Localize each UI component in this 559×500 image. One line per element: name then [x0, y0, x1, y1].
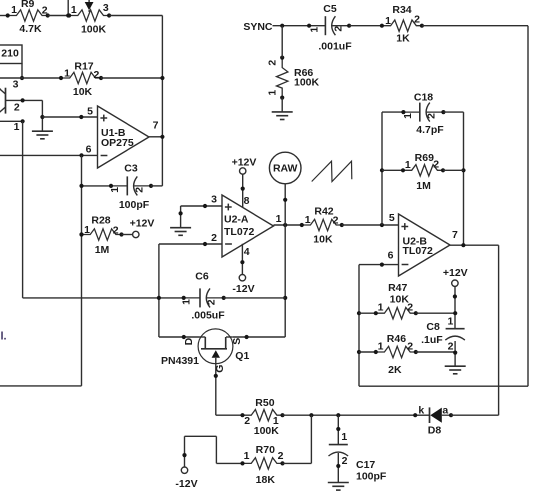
pin 4 U2-A — [240, 244, 249, 275]
svg-text:2: 2 — [244, 415, 250, 427]
wire — [215, 364, 217, 416]
wire — [159, 297, 184, 299]
pin 2 R34 — [414, 13, 420, 25]
wire — [215, 436, 217, 463]
svg-text:TL072: TL072 — [224, 226, 255, 238]
svg-text:R28: R28 — [91, 214, 110, 226]
node junction R47 — [453, 311, 457, 315]
resistor R17 — [59, 72, 103, 83]
node junction pin5 — [380, 223, 384, 227]
terminal +12V U2-A — [240, 168, 246, 174]
svg-text:1: 1 — [378, 340, 384, 352]
svg-text:100K: 100K — [294, 76, 320, 88]
node gnd pin dot — [179, 211, 183, 215]
wire — [22, 121, 24, 298]
value 4.7pF — [416, 124, 444, 136]
svg-text:1K: 1K — [396, 32, 410, 44]
label R28 — [91, 214, 110, 226]
svg-text:C17: C17 — [356, 459, 375, 471]
svg-text:6: 6 — [86, 143, 92, 155]
svg-text:1: 1 — [14, 121, 20, 133]
svg-text:210: 210 — [1, 48, 19, 60]
label R66 — [294, 67, 313, 79]
label R9 — [21, 0, 35, 10]
svg-text:2: 2 — [333, 214, 339, 226]
ground — [272, 112, 293, 120]
svg-text:R47: R47 — [388, 282, 407, 294]
node junction — [309, 413, 313, 417]
wire — [161, 16, 163, 186]
label TL072 — [224, 226, 255, 238]
pin 1 R69 — [405, 159, 411, 171]
svg-text:R46: R46 — [387, 333, 406, 345]
svg-text:100pF: 100pF — [356, 471, 387, 483]
wire — [159, 336, 199, 338]
svg-text:Q1: Q1 — [235, 350, 249, 362]
op-amp U2-A — [222, 195, 274, 257]
node S pin dot — [245, 335, 249, 339]
wire — [527, 26, 529, 387]
ground — [445, 366, 466, 374]
label C8 — [426, 321, 440, 333]
svg-text:2K: 2K — [388, 364, 402, 376]
label C5 — [323, 3, 337, 15]
svg-text:R34: R34 — [392, 4, 411, 16]
ground — [32, 131, 53, 139]
ground — [170, 228, 191, 236]
terminal +12V — [133, 231, 139, 237]
svg-text:18K: 18K — [256, 474, 276, 486]
label C3 — [124, 162, 138, 174]
svg-text:-12V: -12V — [175, 478, 197, 490]
pin 2 R69 — [433, 158, 439, 170]
svg-text:R42: R42 — [314, 206, 333, 218]
diode D8 — [413, 407, 453, 423]
pin 6 U1-B — [86, 143, 92, 155]
pin 1 R17 — [64, 67, 70, 79]
wire — [281, 98, 283, 112]
wire — [498, 245, 500, 415]
value .001uF — [318, 41, 352, 53]
wire — [0, 120, 23, 122]
resistor R70 — [240, 458, 284, 469]
node junction — [160, 135, 164, 139]
op-amp U1-B — [98, 106, 150, 168]
pin a — [442, 405, 448, 417]
svg-text:1: 1 — [402, 113, 414, 119]
pin 2 R70 — [278, 450, 284, 462]
value 100pF — [356, 471, 387, 483]
svg-text:2: 2 — [407, 301, 413, 313]
wire — [216, 414, 243, 416]
potentiometer 100K — [67, 10, 111, 21]
wire — [416, 351, 455, 353]
label C6 — [195, 270, 209, 282]
pin 3 U2-A — [211, 193, 217, 205]
pin 1 U2-A — [276, 213, 282, 225]
pin G — [214, 365, 226, 373]
node junction — [79, 153, 83, 157]
pin 7 U2-B — [452, 229, 458, 241]
svg-text:2: 2 — [342, 455, 348, 467]
terminal -12V — [181, 467, 187, 473]
svg-text:1: 1 — [181, 299, 193, 305]
wire — [0, 77, 61, 79]
svg-text:.1uF: .1uF — [421, 334, 443, 346]
svg-text:1: 1 — [244, 450, 250, 462]
wire — [6, 99, 43, 101]
resistor R28 — [79, 229, 123, 240]
terminal -12V U2-A — [239, 275, 245, 281]
pin 5 U1-B — [87, 105, 93, 117]
wire — [283, 414, 414, 416]
node -12V pin dot — [182, 453, 186, 457]
svg-text:1: 1 — [341, 431, 347, 443]
node junction C17 — [336, 413, 340, 417]
value 10K — [313, 234, 333, 246]
svg-text:2: 2 — [113, 224, 119, 236]
svg-text:TL072: TL072 — [403, 245, 434, 257]
pin 2 R46 — [407, 340, 413, 352]
wire — [273, 25, 310, 27]
svg-text:U2-A: U2-A — [224, 214, 249, 226]
pin 2 C3 — [133, 187, 145, 193]
wire — [101, 77, 162, 79]
svg-text:2: 2 — [133, 187, 145, 193]
label R46 — [387, 333, 406, 345]
svg-text:+12V: +12V — [232, 157, 257, 169]
svg-text:.005uF: .005uF — [191, 310, 225, 322]
svg-text:a: a — [442, 405, 448, 417]
svg-text:2: 2 — [278, 450, 284, 462]
wire — [443, 169, 464, 171]
svg-text:RAW: RAW — [273, 162, 298, 174]
value 100K — [294, 76, 320, 88]
svg-text:1M: 1M — [416, 180, 431, 192]
wire — [109, 15, 162, 17]
node junction top — [66, 13, 70, 17]
value 100K — [81, 23, 107, 35]
text fragment — [1, 331, 7, 343]
flag RAW — [269, 152, 301, 184]
wire — [451, 414, 499, 416]
label R42 — [314, 206, 333, 218]
value 1M — [416, 180, 431, 192]
node junction R46 — [453, 351, 457, 355]
svg-text:1: 1 — [305, 214, 311, 226]
terminal +12V U2-B — [452, 280, 458, 286]
node junction SYNC — [280, 24, 284, 28]
pin 1 C5 — [308, 27, 320, 33]
svg-text:1: 1 — [276, 213, 282, 225]
value 1K — [396, 32, 410, 44]
label D8 — [428, 425, 442, 437]
node junction — [160, 76, 164, 80]
pin 8 U2-A — [241, 174, 250, 207]
wire — [216, 462, 242, 464]
IC box 210 — [0, 45, 22, 64]
node junction — [380, 168, 384, 172]
capacitor C5 — [307, 16, 351, 35]
value 100K — [254, 425, 280, 437]
svg-text:1: 1 — [267, 90, 279, 96]
value 10K — [390, 294, 410, 306]
svg-text:1: 1 — [109, 187, 121, 193]
svg-text:C5: C5 — [323, 3, 337, 15]
wire — [23, 297, 159, 299]
svg-text:100K: 100K — [254, 425, 280, 437]
label +12V — [443, 267, 468, 279]
wire — [444, 111, 464, 113]
svg-text:3: 3 — [211, 193, 217, 205]
node junction — [157, 296, 161, 300]
svg-text:100K: 100K — [81, 23, 107, 35]
svg-text:2: 2 — [414, 13, 420, 25]
wire — [422, 25, 528, 27]
capacitor C17 — [329, 445, 349, 456]
label Q1 — [235, 350, 249, 362]
pin 1 C6 — [181, 299, 193, 305]
pin 1 R9 — [11, 4, 17, 16]
svg-text:1: 1 — [385, 15, 391, 27]
svg-text:D8: D8 — [428, 425, 442, 437]
wire — [284, 225, 286, 337]
node C17 pin dot — [336, 464, 340, 468]
node pin7 junction — [461, 243, 465, 247]
node D pin dot — [182, 335, 186, 339]
svg-text:1: 1 — [84, 224, 90, 236]
node pin3 dot — [203, 204, 207, 208]
wire — [180, 206, 182, 228]
wire — [337, 415, 339, 444]
svg-text:3: 3 — [103, 2, 109, 14]
pin 7 U1-B — [153, 119, 159, 131]
resistor R66 — [277, 56, 288, 100]
node junction — [40, 115, 44, 119]
resistor R69 — [401, 165, 445, 176]
svg-text:R17: R17 — [74, 60, 93, 72]
svg-text:4: 4 — [244, 246, 250, 258]
svg-text:S: S — [231, 338, 243, 345]
label C18 — [414, 92, 433, 104]
wire — [382, 111, 403, 113]
svg-text:+12V: +12V — [443, 267, 468, 279]
label R69 — [415, 152, 434, 164]
pin 3 box — [13, 78, 19, 90]
svg-text:R70: R70 — [256, 444, 275, 456]
svg-text:l.: l. — [1, 331, 7, 343]
svg-text:2: 2 — [267, 60, 279, 66]
pin 1 C3 — [109, 187, 121, 193]
label R17 — [74, 60, 93, 72]
node C17 pin dot — [336, 427, 340, 431]
wire — [342, 224, 399, 226]
svg-text:8: 8 — [244, 195, 250, 207]
pin 2 transistor — [14, 101, 20, 113]
wire — [67, 0, 69, 16]
capacitor C18 — [401, 103, 445, 122]
pin 1 C17 — [341, 431, 347, 443]
wire — [454, 341, 456, 366]
node junction — [20, 76, 24, 80]
pin 2 C17 — [342, 455, 348, 467]
wire — [233, 336, 285, 338]
svg-text:2: 2 — [407, 340, 413, 352]
resistor R50 — [240, 410, 284, 421]
pin 1 transistor — [14, 121, 20, 133]
node junction — [79, 184, 83, 188]
pin 2 C8 — [448, 341, 454, 353]
wire — [284, 184, 286, 225]
node U1-B pin5 dot — [79, 115, 83, 119]
svg-text:2: 2 — [206, 299, 218, 305]
svg-text:+12V: +12V — [130, 217, 155, 229]
resistor R34 — [380, 20, 424, 31]
pin 6 U2-B — [388, 250, 394, 262]
svg-text:.001uF: .001uF — [318, 41, 352, 53]
wire — [151, 185, 162, 187]
node junction — [79, 232, 83, 236]
pin 2 U2-A — [211, 232, 217, 244]
svg-text:C8: C8 — [426, 321, 440, 333]
label U2-B — [403, 235, 428, 247]
resistor R42 — [300, 219, 344, 230]
svg-text:SYNC: SYNC — [243, 21, 273, 33]
wire — [281, 26, 283, 58]
svg-text:C18: C18 — [414, 92, 433, 104]
pin 2 R42 — [333, 214, 339, 226]
label R47 — [388, 282, 407, 294]
pin 1 pot — [71, 4, 77, 16]
svg-text:1: 1 — [447, 316, 453, 328]
resistor R46 — [374, 346, 418, 357]
capacitor C3 — [109, 176, 153, 195]
pin 1 R46 — [378, 340, 384, 352]
wire — [21, 64, 23, 79]
value 18K — [256, 474, 276, 486]
resistor R47 — [374, 308, 418, 319]
svg-text:OP275: OP275 — [101, 137, 134, 149]
resistor R9 — [6, 10, 50, 21]
svg-text:k: k — [418, 405, 424, 417]
pin S — [231, 338, 243, 345]
pin 1 R42 — [305, 214, 311, 226]
svg-text:2: 2 — [333, 26, 345, 32]
value 2K — [388, 364, 402, 376]
svg-text:2: 2 — [426, 113, 438, 119]
wire — [450, 244, 499, 246]
svg-text:-12V: -12V — [232, 283, 254, 295]
transistor Q1 PN4391 — [198, 329, 233, 364]
label R70 — [256, 444, 275, 456]
pot wiper arrow — [85, 0, 94, 12]
svg-text:1: 1 — [405, 159, 411, 171]
wire — [149, 136, 162, 138]
node RAW pin dot — [283, 198, 287, 202]
wire — [283, 462, 312, 464]
wire — [349, 25, 382, 27]
label TL072 — [403, 245, 434, 257]
pin 1 R34 — [385, 15, 391, 27]
wire — [359, 385, 528, 387]
pin 2 R66 — [267, 60, 279, 66]
label R50 — [255, 397, 274, 409]
node pin dot — [453, 294, 457, 298]
wire — [159, 243, 222, 245]
node pin2 dot — [203, 242, 207, 246]
node junction C6 — [283, 296, 287, 300]
node G pin dot — [214, 374, 218, 378]
wire — [359, 312, 376, 314]
pin 1 C18 — [402, 113, 414, 119]
pin 1 C8 — [447, 316, 453, 328]
svg-text:10K: 10K — [73, 86, 93, 98]
wire — [0, 385, 82, 387]
wire — [184, 436, 186, 467]
svg-text:10K: 10K — [313, 234, 333, 246]
pin 1 R70 — [244, 450, 250, 462]
svg-text:7: 7 — [153, 119, 159, 131]
svg-text:2: 2 — [14, 101, 20, 113]
pin D — [183, 337, 195, 345]
svg-text:2: 2 — [42, 4, 48, 16]
svg-text:2: 2 — [448, 341, 454, 353]
svg-text:4.7K: 4.7K — [19, 23, 42, 35]
label OP275 — [101, 137, 134, 149]
wire — [82, 185, 112, 187]
wire — [158, 244, 160, 337]
wire — [0, 154, 98, 156]
svg-text:4.7pF: 4.7pF — [416, 124, 444, 136]
svg-text:6: 6 — [388, 250, 394, 262]
sawtooth waveform symbol — [312, 161, 352, 181]
svg-text:R69: R69 — [415, 152, 434, 164]
wire — [42, 116, 97, 118]
value 10K — [73, 86, 93, 98]
svg-text:C3: C3 — [124, 162, 138, 174]
wire — [382, 169, 403, 171]
label -12V — [232, 283, 254, 295]
svg-text:2: 2 — [211, 232, 217, 244]
pin 2 C6 — [206, 299, 218, 305]
wire — [181, 205, 222, 207]
net label SYNC — [243, 21, 273, 33]
label -12V — [175, 478, 197, 490]
pin 3 pot — [103, 2, 109, 14]
node junction — [461, 168, 465, 172]
capacitor C6 — [182, 288, 226, 307]
pin 1 R50 — [273, 415, 279, 427]
wire — [274, 224, 302, 226]
label +12V — [130, 217, 155, 229]
svg-text:5: 5 — [389, 212, 395, 224]
svg-text:7: 7 — [452, 229, 458, 241]
svg-text:D: D — [183, 337, 195, 345]
value 100pF — [119, 199, 150, 211]
wire — [359, 264, 399, 266]
label PN4391 — [161, 355, 199, 367]
wire — [416, 312, 455, 314]
node junction — [357, 350, 361, 354]
capacitor C8 — [445, 329, 465, 340]
wire — [381, 112, 383, 225]
label U1-B — [101, 127, 126, 139]
svg-text:PN4391: PN4391 — [161, 355, 199, 367]
transistor Q (cut off) — [0, 86, 6, 115]
wire — [454, 287, 456, 329]
pin 2 C5 — [333, 26, 345, 32]
wire — [185, 435, 217, 437]
